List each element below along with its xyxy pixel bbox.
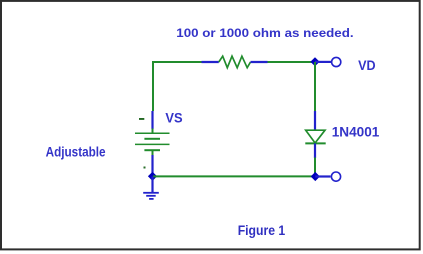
wire: junction to output terminal	[315, 175, 330, 177]
battery VS: plate 3 long	[135, 143, 170, 145]
battery VS: plate 2 short	[144, 138, 160, 140]
resistor R: zigzag body	[219, 56, 251, 67]
svg-text:Figure 1: Figure 1	[238, 222, 286, 238]
battery VS: plate 4 short	[144, 149, 160, 151]
svg-text:1N4001: 1N4001	[332, 123, 380, 139]
diode D1 anode lead	[314, 111, 316, 130]
resistor R: right lead	[251, 61, 268, 63]
wire: bottom horizontal	[153, 175, 315, 177]
battery VS: top stub	[152, 129, 154, 134]
terminal: bottom output circle	[331, 172, 340, 181]
ground: bar 3	[149, 198, 154, 200]
wire: top-right horizontal (resistor to junction)	[267, 61, 315, 63]
diode D1 cathode bar	[305, 142, 325, 144]
ground: bar 1	[143, 192, 159, 194]
svg-text:VD: VD	[358, 57, 376, 73]
svg-text:VS: VS	[165, 110, 182, 126]
diode D1 cathode lead	[314, 143, 316, 158]
battery VS: minus marker	[144, 167, 146, 169]
node: bottom-left junction (diamond)	[148, 172, 157, 181]
resistor R (100/1000 ohm): left lead	[202, 61, 219, 63]
svg-text:100 or 1000 ohm as needed.: 100 or 1000 ohm as needed.	[176, 26, 353, 40]
node: top-right junction (diamond)	[310, 57, 319, 66]
diode D1 triangle	[306, 130, 325, 143]
ground: lead	[151, 177, 153, 193]
battery VS: plate 1 long	[135, 132, 170, 134]
terminal: VD output circle	[332, 57, 341, 66]
battery VS: bottom stub	[152, 150, 154, 155]
battery VS: plus marker	[139, 118, 144, 120]
battery VS: top lead	[151, 111, 153, 129]
wire: right vertical (junction to diode)	[314, 62, 316, 112]
svg-text:Adjustable: Adjustable	[46, 144, 106, 159]
wire: junction to VD terminal	[315, 61, 331, 63]
battery VS: bottom lead	[151, 155, 153, 177]
wire: diode to bottom junction	[314, 158, 316, 177]
node: bottom-right junction (diamond)	[311, 172, 320, 181]
wire: top-left horizontal (corner to resistor)	[153, 62, 202, 111]
ground: bar 2	[146, 195, 156, 197]
